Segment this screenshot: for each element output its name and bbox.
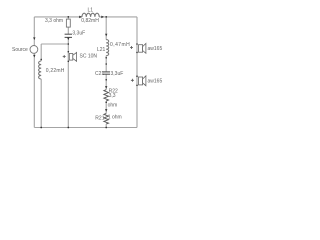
svg-text:Source: Source [12, 47, 28, 53]
svg-text:1 ohm: 1 ohm [108, 115, 122, 121]
svg-text:ohm: ohm [108, 103, 118, 109]
svg-text:SC 10N: SC 10N [80, 54, 98, 60]
svg-text:3,3 ohm: 3,3 ohm [45, 18, 63, 24]
svg-text:3,3: 3,3 [109, 93, 116, 99]
svg-text:3,3uF: 3,3uF [72, 31, 85, 37]
svg-text:0,22mH: 0,22mH [46, 68, 65, 74]
svg-text:L1: L1 [88, 7, 94, 13]
svg-text:R21: R21 [95, 115, 104, 121]
svg-text:L21: L21 [97, 47, 106, 53]
svg-text:0,47mH: 0,47mH [110, 42, 130, 48]
svg-text:aw165: aw165 [148, 78, 163, 84]
svg-text:C21: C21 [95, 71, 104, 77]
svg-text:aw165: aw165 [148, 46, 163, 52]
svg-text:0,82mH: 0,82mH [81, 18, 99, 24]
svg-text:3,3uF: 3,3uF [111, 71, 124, 77]
